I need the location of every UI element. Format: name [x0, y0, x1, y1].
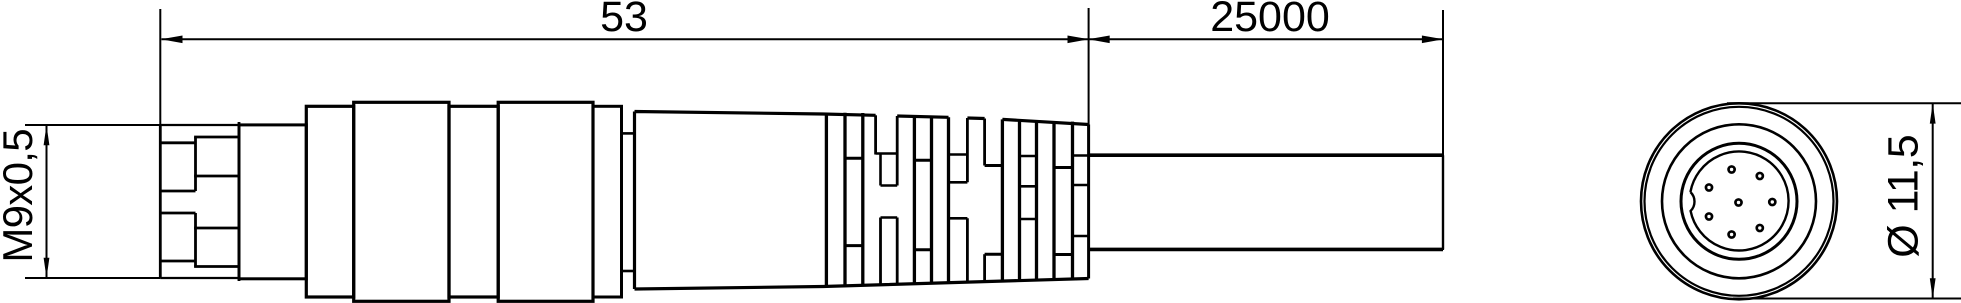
boot end edge	[1087, 125, 1090, 279]
boot rib group B vertical 3	[947, 117, 950, 283]
thread upper-left block top	[160, 141, 195, 144]
thread crest column boundary upper	[194, 137, 197, 191]
boot lower crossbar before group C	[985, 253, 1003, 256]
boot end segment bottom tower cap	[1073, 235, 1089, 238]
pin center	[1735, 199, 1741, 205]
connector face insert circle with keyway notch	[1690, 151, 1788, 250]
dimension dia 11,5 bottom extension line	[1733, 298, 1961, 300]
boot end segment hanging box cap	[1073, 184, 1089, 187]
thread right boundary V3	[238, 122, 241, 281]
connector face insert outer ring	[1681, 143, 1797, 259]
cable bottom outline	[1089, 248, 1443, 252]
dimension 53 right arrow	[1068, 36, 1090, 44]
connector face ring 3	[1662, 124, 1816, 278]
boot rib group C vertical 1	[1001, 119, 1004, 281]
boot valley 2 hanging box cap	[949, 181, 968, 184]
section E	[449, 106, 498, 297]
boot rib group C vertical 3	[1035, 120, 1038, 280]
cable top outline	[1089, 153, 1443, 157]
boot end group upper crossbar	[1054, 166, 1073, 169]
thread lower-right block bottom	[194, 265, 239, 268]
boot drop wall before group C upper	[983, 119, 986, 166]
boot rib end group vertical 2	[1071, 122, 1074, 279]
boot valley 1 bottom tower right wall	[896, 218, 899, 285]
boot upper crossbar before group C	[985, 164, 1003, 167]
dimension dia 11,5 top arrow	[1930, 103, 1936, 123]
dimension dia 11,5 vertical line	[1932, 103, 1934, 298]
section D hex body	[354, 102, 449, 301]
pin at 102.9deg	[1729, 231, 1735, 237]
dimension 25000 left arrow	[1088, 36, 1110, 44]
svg-text:53: 53	[600, 0, 648, 41]
dimension 53 left extension line	[159, 9, 161, 125]
svg-text:Ø 11,5: Ø 11,5	[1880, 135, 1928, 258]
boot valley 2 right wall	[966, 118, 969, 182]
pin at 257.1deg	[1729, 166, 1735, 172]
boot valley 2 bottom tower right wall	[966, 218, 969, 282]
cable end edge	[1442, 155, 1444, 249]
boot rib group C vertical 2	[1018, 120, 1021, 281]
boot end segment floor	[1073, 154, 1089, 157]
neck bottom edge	[622, 270, 635, 273]
boot valley 1 hanging box cap	[881, 184, 898, 187]
thread lower-left block top	[160, 212, 195, 215]
boot top edge segment between valley1 and valley2	[897, 116, 948, 117]
section F hex body	[498, 102, 593, 301]
boot valley 1 right wall	[896, 116, 899, 186]
boot top edge segment after valley2	[967, 116, 984, 120]
dimension 53 right extension line	[1088, 8, 1090, 126]
boot group C hanging box cap	[1020, 185, 1037, 188]
section G	[593, 106, 622, 297]
boot valley 2 floor	[949, 153, 968, 156]
pin at 308.6deg	[1757, 173, 1763, 179]
dimension 25000 right extension line	[1442, 10, 1444, 250]
dimension 25000 line	[1089, 38, 1443, 40]
dimension 53 left arrow	[161, 36, 183, 44]
boot rib group A vertical 1	[825, 113, 828, 287]
pin at 154.3deg	[1706, 213, 1712, 219]
pin at 205.7deg	[1706, 184, 1712, 190]
pin at 0deg	[1769, 199, 1775, 205]
thread crest column boundary lower	[194, 213, 197, 267]
thread upper-right block top	[194, 136, 239, 139]
boot top edge segment group C to end	[1002, 119, 1088, 124]
dimension M9x0,5 bottom extension line	[25, 277, 160, 279]
boot rib group B vertical 2	[930, 117, 933, 284]
pin at 51.4deg	[1757, 225, 1763, 231]
dimension M9x0,5 top arrow	[44, 125, 50, 145]
boot rib group A upper crossbar	[845, 157, 863, 160]
section C	[306, 106, 353, 297]
boot valley 2 bottom tower cap	[949, 217, 968, 220]
dimension dia 11,5 top extension line	[1727, 102, 1961, 104]
dimension 53 line	[162, 38, 1089, 40]
boot valley 1 hanging box left wall	[879, 154, 882, 186]
thread outline bottom extension over thread	[160, 277, 239, 279]
boot rib group B vertical 1	[913, 116, 916, 284]
thread upper-left block bottom	[160, 190, 195, 193]
dimension M9x0,5 bottom arrow	[44, 258, 50, 278]
boot rib group A lower crossbar	[845, 244, 863, 247]
boot end group lower crossbar	[1054, 253, 1073, 256]
boot rib group A vertical 3	[861, 113, 864, 286]
strain relief boot smooth cone outline	[635, 112, 1089, 290]
boot valley 1 bottom tower cap	[881, 216, 898, 219]
dimension M9x0,5 vertical line	[46, 125, 48, 278]
svg-text:25000: 25000	[1210, 0, 1330, 41]
thread upper-right block bottom	[194, 175, 239, 178]
connector face outer circle	[1641, 103, 1837, 299]
thread left end face V0	[159, 125, 162, 278]
boot valley 1 floor	[876, 152, 898, 155]
dimension M9x0,5 top extension line	[25, 124, 160, 126]
boot rib group B lower crossbar	[914, 248, 931, 251]
boot drop wall before group C lower	[983, 254, 986, 282]
dimension 25000 right arrow	[1422, 36, 1444, 44]
boot rib group B upper crossbar	[914, 159, 931, 162]
thread lower-right block top	[194, 227, 239, 230]
thread lower-left block bottom	[160, 260, 195, 263]
boot rib end group vertical 1	[1052, 121, 1055, 280]
boot group C inner floor	[1020, 155, 1037, 158]
boot rib group A vertical 2	[843, 113, 846, 286]
neck top edge	[622, 132, 635, 135]
thread outline top extension over thread	[160, 124, 239, 126]
boot valley 1 plunge wall	[874, 115, 877, 154]
dimension dia 11,5 bottom arrow	[1930, 278, 1936, 298]
svg-text:M9x0,5: M9x0,5	[0, 129, 41, 263]
boot valley 1 bottom tower left wall	[879, 218, 882, 286]
boot group C bottom tower cap	[1020, 218, 1037, 221]
connector face outer ring 2	[1645, 107, 1834, 296]
section B thread cylinder	[239, 125, 306, 279]
